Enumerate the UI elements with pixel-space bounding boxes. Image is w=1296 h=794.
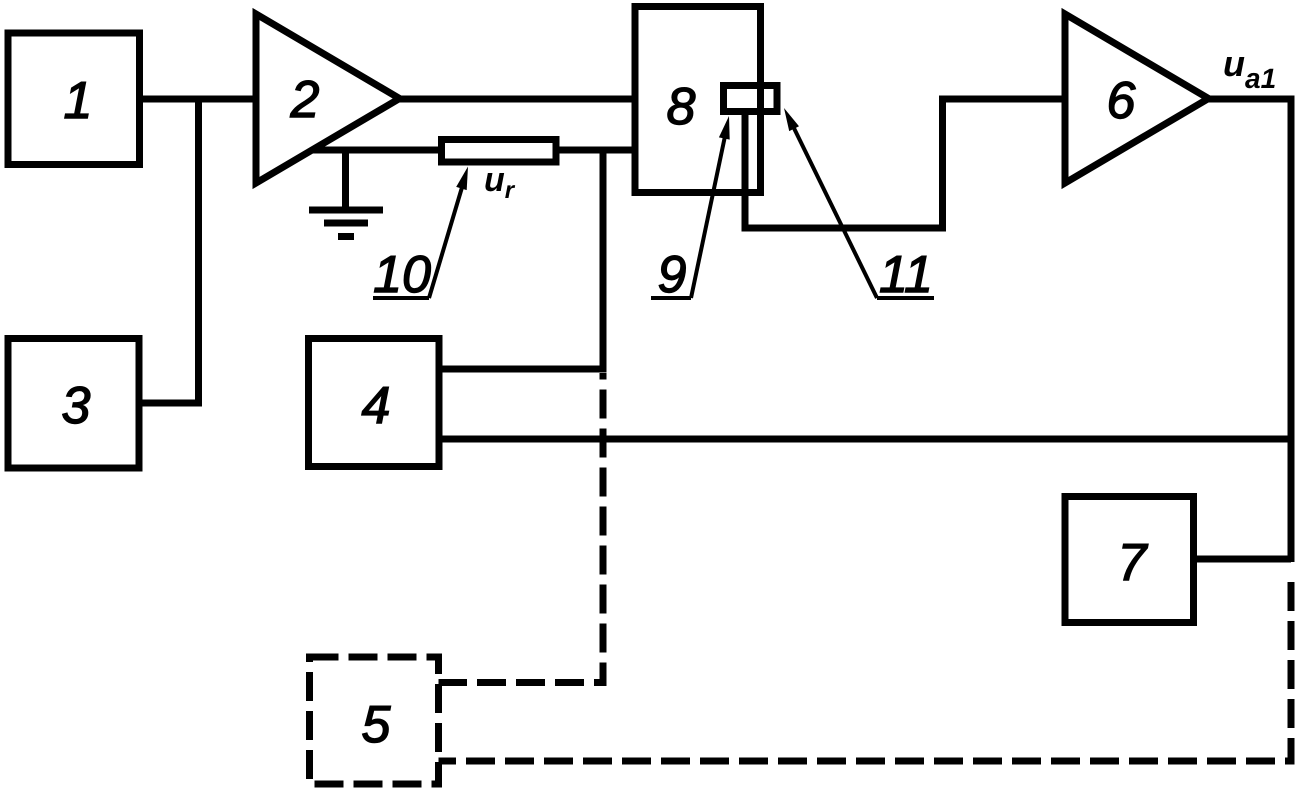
ground	[309, 150, 383, 237]
svg-text:4: 4	[362, 377, 391, 435]
box 8	[635, 7, 761, 193]
wire dashed path right vertical down and left to box5 lower output	[438, 572, 1291, 761]
svg-text:10: 10	[373, 246, 431, 304]
wire vertical x603 solid part	[600, 147, 607, 369]
leader line and arrow for label 9	[651, 129, 727, 298]
box 7	[1065, 497, 1194, 623]
svg-text:8: 8	[667, 78, 696, 136]
wire from pickup 9 down, under box8, riser up to amplifier6 input	[745, 99, 1067, 228]
svg-text:6: 6	[1107, 72, 1136, 130]
wire dashed path from box5 upper output right and up to x603 junction	[438, 373, 603, 683]
box 5 dashed	[310, 657, 439, 784]
wire box7 output	[1193, 556, 1291, 563]
box 3	[8, 339, 139, 469]
wire box4 lower long output	[439, 436, 1291, 443]
resistor 10	[442, 140, 557, 163]
wire right vertical solid	[1288, 96, 1295, 563]
wire box4 upper output	[439, 366, 607, 373]
wire amplifier2 output to box8	[398, 96, 634, 103]
leader line and arrow for label 11	[790, 119, 935, 298]
svg-text:9: 9	[658, 246, 687, 304]
amplifier 2	[256, 14, 400, 183]
box 1	[8, 33, 140, 165]
svg-text:5: 5	[362, 696, 392, 754]
wire amplifier6 output	[1204, 96, 1294, 103]
svg-text:1: 1	[64, 72, 93, 130]
box 4	[309, 339, 440, 467]
wire junction branch down from node to box3 output corner	[139, 99, 199, 403]
leader line and arrow for label 10	[373, 179, 465, 298]
svg-text:11: 11	[879, 246, 933, 304]
wire lower tap line from amplifier2 to box8 through resistor	[310, 147, 634, 154]
svg-text:7: 7	[1118, 534, 1149, 592]
svg-text:2: 2	[290, 71, 320, 129]
wire box1 to amplifier2	[139, 96, 254, 103]
svg-text:3: 3	[62, 377, 91, 435]
pickup element 9	[724, 86, 778, 112]
amplifier 6	[1065, 14, 1209, 183]
